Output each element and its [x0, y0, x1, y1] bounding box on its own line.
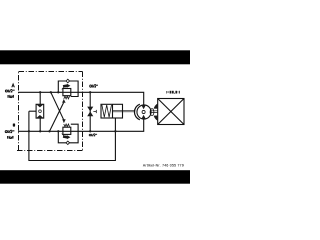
- svg-text:Artikel-Nr. 746 055 779: Artikel-Nr. 746 055 779: [143, 163, 184, 167]
